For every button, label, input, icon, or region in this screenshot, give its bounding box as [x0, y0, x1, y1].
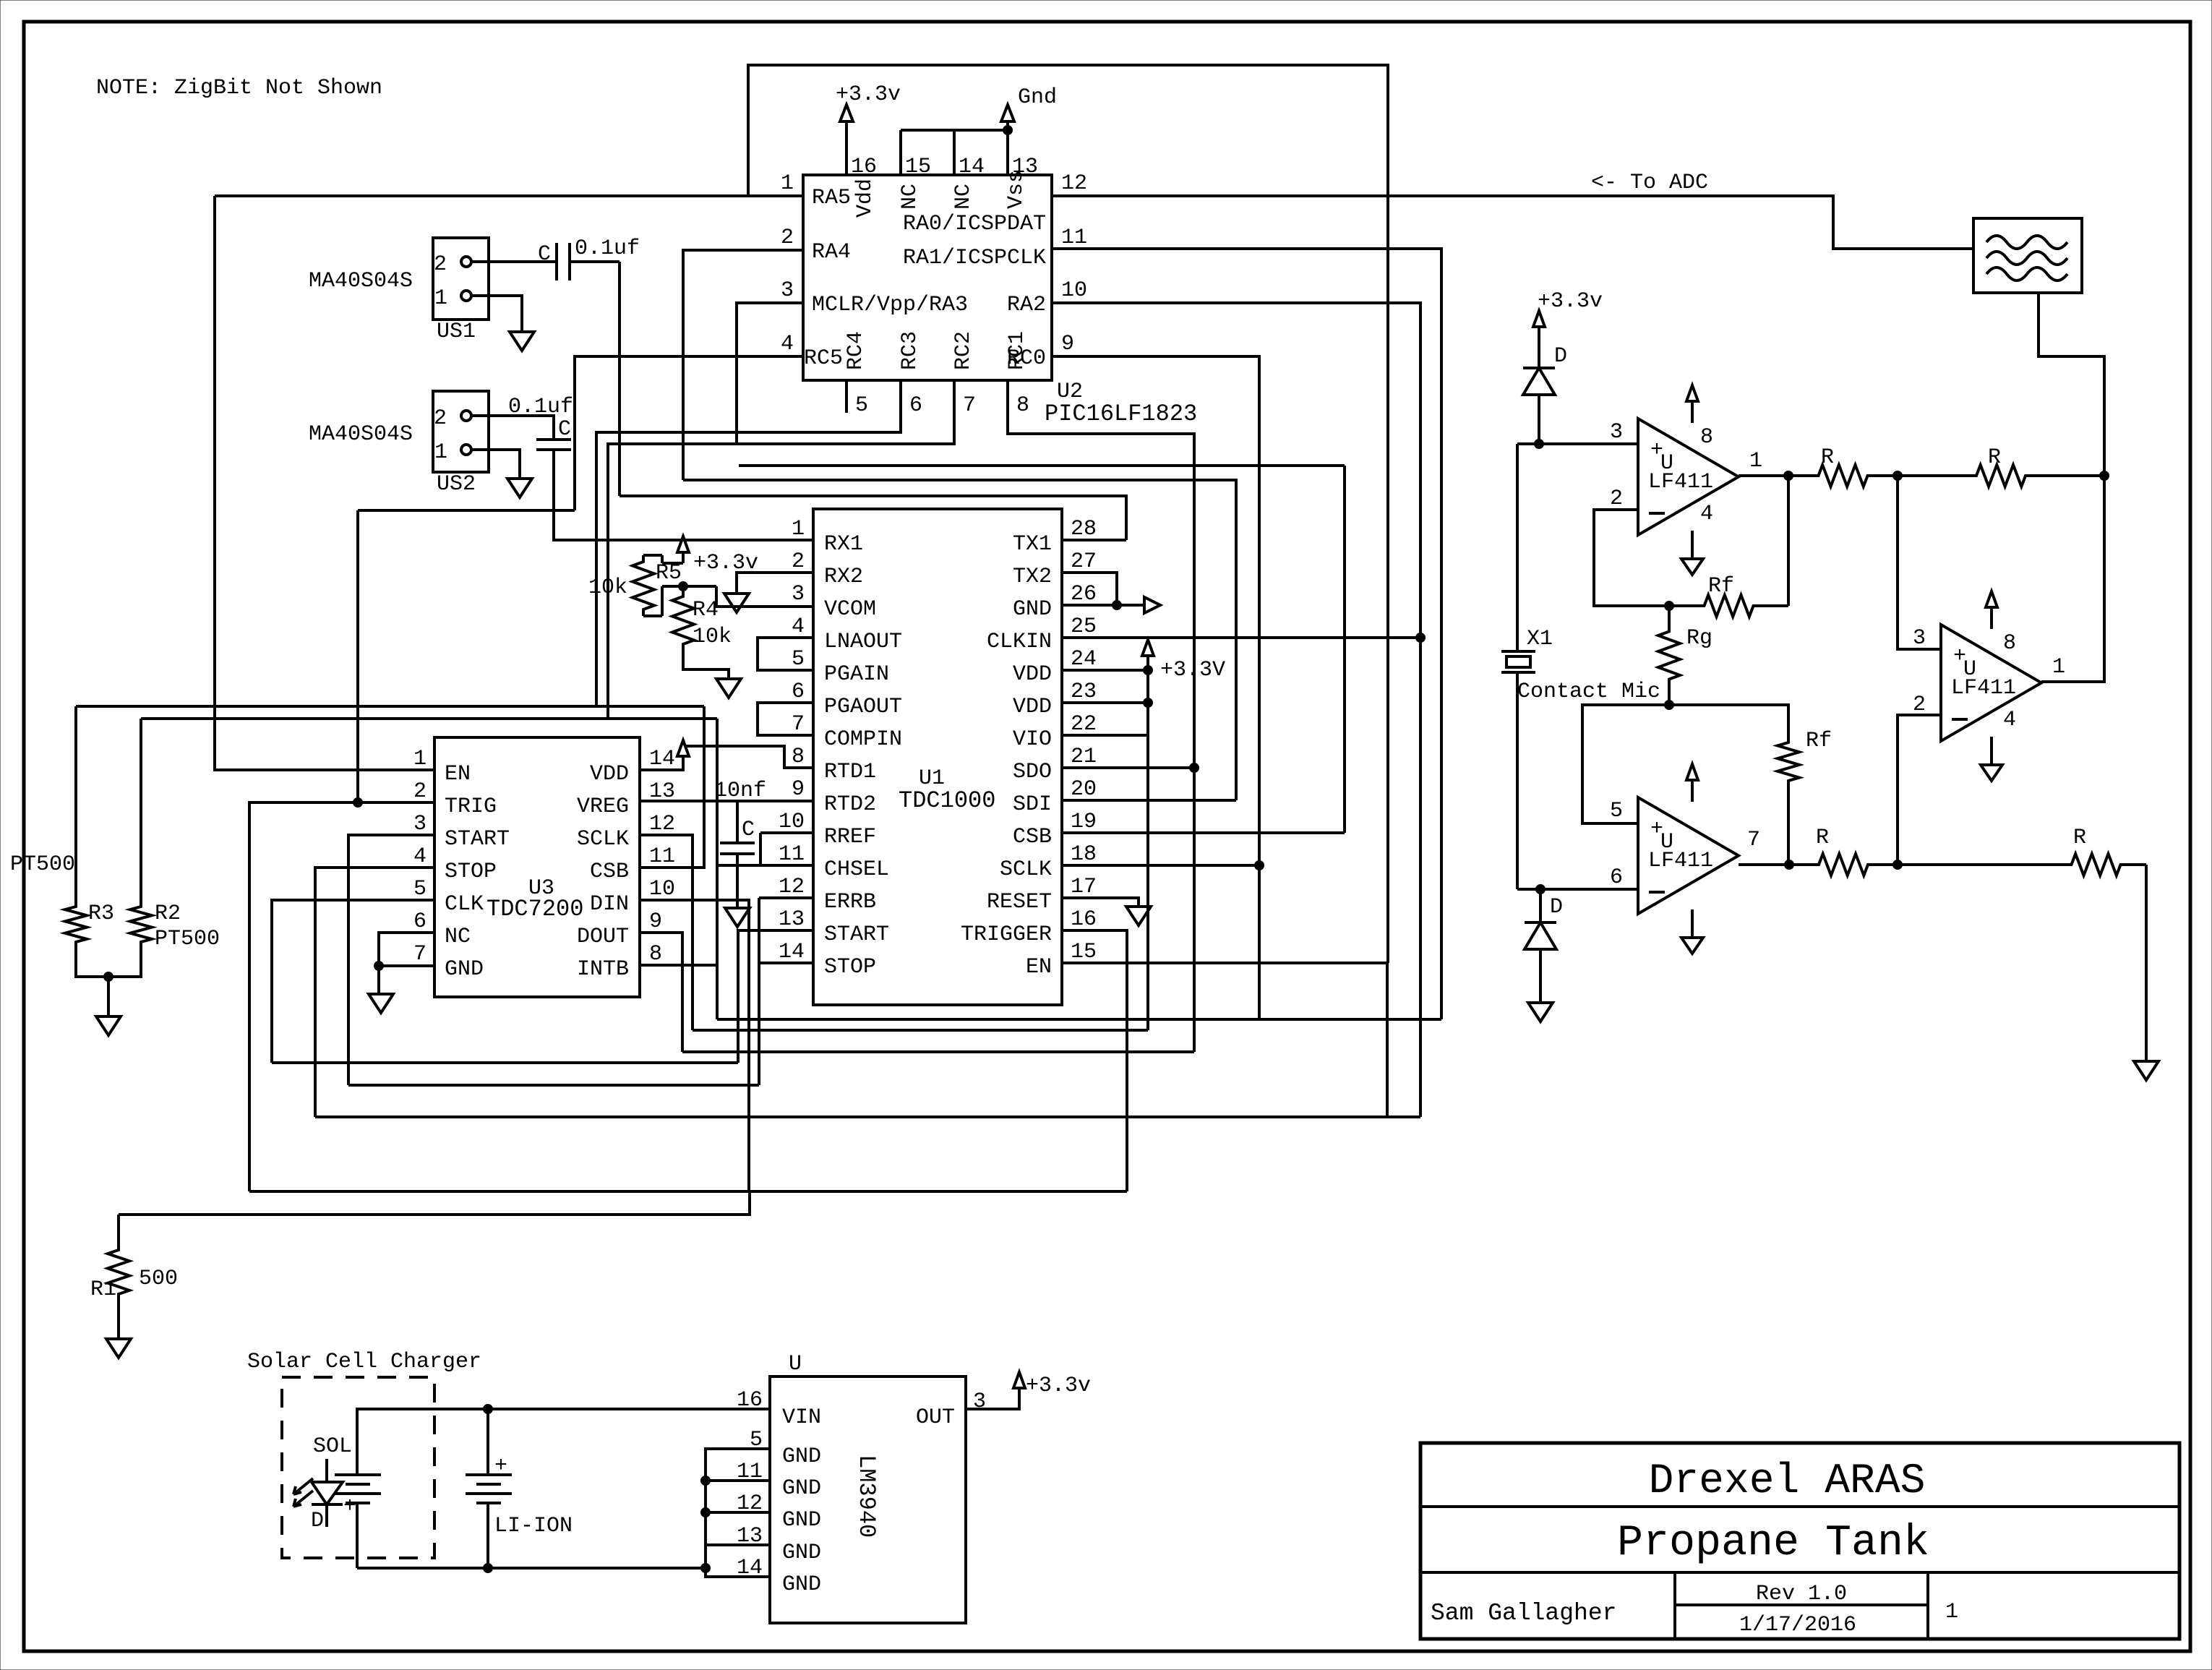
- svg-text:RC5: RC5: [804, 346, 843, 371]
- junction (bottom mid node): [1893, 860, 1903, 870]
- wire row TRIG-TRIGGER: [249, 1190, 1127, 1193]
- wire VREG to RTD2: [640, 800, 813, 802]
- junction (TRIG/R1): [353, 798, 363, 808]
- svg-text:5: 5: [855, 393, 868, 418]
- svg-text:Solar Cell Charger: Solar Cell Charger: [247, 1350, 481, 1374]
- power +3.3v (diode D top): [1533, 311, 1545, 327]
- svg-text:GND: GND: [1013, 597, 1052, 622]
- svg-text:8: 8: [649, 942, 662, 967]
- resistor R2 PT500: [130, 903, 152, 946]
- svg-text:17: 17: [1071, 875, 1097, 899]
- svg-text:2: 2: [1610, 487, 1623, 511]
- wire RA1/ICSPCLK: [1052, 249, 1441, 1019]
- svg-text:Rf: Rf: [1708, 574, 1734, 599]
- junction (lm gnd): [701, 1564, 711, 1573]
- wire row DOUT-SDO: [682, 1050, 1194, 1053]
- wire RTD1 jog: [685, 746, 813, 768]
- svg-text:RTD1: RTD1: [824, 760, 876, 784]
- wire RC5-TRIG row: [358, 509, 575, 512]
- svg-text:13: 13: [779, 907, 805, 932]
- wire LNAOUT-PGAIN loop: [758, 638, 813, 670]
- svg-text:Sam Gallagher: Sam Gallagher: [1431, 1600, 1616, 1627]
- svg-text:LF411: LF411: [1648, 849, 1713, 873]
- svg-text:SDI: SDI: [1013, 792, 1052, 817]
- op-amp U LF411 (right): [1941, 625, 2041, 741]
- svg-text:10k: 10k: [693, 625, 732, 649]
- wire RA4-SDI row: [683, 480, 1236, 800]
- wire op1 out: [1739, 474, 1788, 477]
- wire CSB U1: [1062, 831, 1345, 834]
- svg-text:RC2: RC2: [951, 331, 976, 370]
- svg-text:TDC1000: TDC1000: [899, 787, 995, 814]
- capacitor C 0.1uf (US2): [536, 438, 571, 441]
- svg-text:X1: X1: [1527, 627, 1553, 651]
- wire U1 START riser: [738, 930, 813, 1063]
- svg-text:28: 28: [1071, 517, 1097, 541]
- svg-text:OUT: OUT: [916, 1405, 955, 1430]
- resistor R5 10k: [633, 555, 654, 616]
- svg-text:R: R: [1816, 826, 1829, 850]
- junction (VDD23): [1144, 698, 1153, 708]
- svg-text:12: 12: [779, 875, 805, 899]
- svg-text:22: 22: [1071, 712, 1097, 737]
- svg-text:R4: R4: [693, 598, 719, 622]
- wire MCLR (pin3): [737, 303, 803, 444]
- wire U3 START riser: [348, 835, 434, 1085]
- svg-text:COMPIN: COMPIN: [824, 727, 902, 752]
- junction (op1 out): [1784, 471, 1793, 481]
- resistor R1 500: [117, 1215, 120, 1246]
- svg-text:1: 1: [434, 286, 447, 311]
- ground (op2 pin4): [1990, 737, 1993, 765]
- wire R3 row: [76, 705, 704, 708]
- svg-text:STOP: STOP: [824, 955, 876, 980]
- squiggle box (transducer): [1973, 218, 2082, 293]
- svg-text:13: 13: [1012, 155, 1038, 179]
- wire U3 DIN riser: [640, 900, 749, 1191]
- svg-text:16: 16: [1071, 907, 1097, 932]
- svg-text:ERRB: ERRB: [824, 890, 876, 915]
- svg-text:3: 3: [792, 582, 805, 607]
- svg-text:16: 16: [737, 1388, 763, 1413]
- ground (RX2): [724, 594, 749, 612]
- wire U3 NC jog: [379, 933, 434, 966]
- svg-text:4: 4: [2003, 708, 2016, 732]
- wire RC1 (pin8): [1008, 380, 1194, 1052]
- wire op3 out: [1739, 863, 1789, 866]
- svg-text:+3.3v: +3.3v: [1026, 1374, 1091, 1398]
- svg-text:RA2: RA2: [1007, 293, 1046, 317]
- svg-text:3: 3: [973, 1389, 986, 1414]
- svg-text:DIN: DIN: [590, 892, 629, 917]
- svg-text:7: 7: [413, 942, 426, 967]
- svg-text:R3: R3: [88, 902, 114, 926]
- ground (op3 pin4): [1691, 909, 1694, 938]
- svg-text:1: 1: [792, 517, 805, 541]
- svg-text:10: 10: [779, 810, 805, 834]
- junction (liion-): [484, 1564, 493, 1573]
- junction (gnd12): [701, 1508, 711, 1517]
- connector US1 MA40S04S: [433, 238, 489, 320]
- svg-text:10nf: 10nf: [714, 779, 766, 803]
- ic U3 TDC7200: [434, 737, 640, 997]
- wire US2 pin2: [471, 416, 554, 440]
- wire RX2 to ground: [737, 573, 813, 594]
- svg-text:U: U: [789, 1352, 802, 1376]
- wire R to ground: [2145, 865, 2148, 1061]
- wire U3 DOUT riser: [640, 933, 682, 1052]
- connector US2 MA40S04S: [433, 391, 489, 472]
- op-amp U LF411 (top): [1638, 419, 1739, 535]
- svg-text:RC1: RC1: [1005, 331, 1029, 370]
- svg-text:1: 1: [2052, 655, 2065, 680]
- wire EN riser: [1062, 962, 1388, 964]
- battery LI-ION: [486, 1409, 489, 1475]
- svg-text:2: 2: [792, 549, 805, 574]
- svg-text:RX1: RX1: [824, 532, 863, 557]
- svg-text:Propane Tank: Propane Tank: [1617, 1519, 1929, 1568]
- junction (R2R3 gnd): [104, 972, 113, 982]
- junction (mid R node): [1893, 471, 1903, 481]
- wire row STOP3-CLKIN: [315, 1116, 1420, 1118]
- wire row CLK3: [272, 1061, 738, 1064]
- svg-text:6: 6: [909, 393, 922, 418]
- svg-text:1: 1: [1749, 449, 1762, 474]
- capacitor C 10nf: [720, 842, 755, 844]
- svg-text:PGAOUT: PGAOUT: [824, 695, 902, 719]
- svg-text:Drexel ARAS: Drexel ARAS: [1649, 1458, 1926, 1505]
- svg-text:PGAIN: PGAIN: [824, 662, 889, 687]
- svg-text:GND: GND: [782, 1476, 821, 1501]
- wire PGAOUT-COMPIN loop: [758, 703, 813, 735]
- svg-text:2: 2: [434, 406, 447, 431]
- svg-text:5: 5: [1610, 799, 1623, 823]
- svg-text:GND: GND: [445, 957, 484, 982]
- wire row 644: [739, 464, 1345, 467]
- ground (bottom R): [2134, 1061, 2159, 1080]
- svg-text:3: 3: [1913, 626, 1926, 651]
- svg-text:US2: US2: [437, 472, 476, 497]
- power (op3 pin8): [1691, 781, 1694, 802]
- wire U3 CSB riser: [640, 706, 704, 868]
- svg-text:LM3940: LM3940: [853, 1455, 880, 1538]
- svg-text:VIO: VIO: [1013, 727, 1052, 752]
- junction (diode D bottom): [1536, 885, 1546, 894]
- junction (right R node): [2100, 471, 2109, 481]
- svg-text:8: 8: [792, 745, 805, 769]
- svg-text:2: 2: [781, 226, 794, 250]
- wire C to ground: [736, 854, 739, 908]
- svg-text:4: 4: [1700, 502, 1713, 526]
- wire R4 to ground: [683, 654, 729, 679]
- wire TX2 to GND port: [1062, 573, 1117, 605]
- svg-text:21: 21: [1071, 745, 1097, 769]
- svg-text:11: 11: [1061, 226, 1087, 250]
- svg-text:VDD: VDD: [1013, 695, 1052, 719]
- svg-text:24: 24: [1071, 647, 1097, 672]
- svg-text:VDD: VDD: [590, 762, 629, 787]
- ground (RESET): [1126, 907, 1151, 925]
- svg-text:TDC7200: TDC7200: [486, 896, 583, 922]
- svg-text:18: 18: [1071, 842, 1097, 867]
- capacitor C 0.1uf (US1): [555, 243, 558, 281]
- svg-text:5: 5: [792, 647, 805, 672]
- svg-text:4: 4: [781, 332, 794, 356]
- wire R2 riser: [140, 719, 142, 903]
- svg-text:2: 2: [1913, 693, 1926, 717]
- svg-text:START: START: [445, 827, 510, 852]
- power +3.3v (U2 pin16): [845, 121, 848, 175]
- svg-text:GND: GND: [782, 1508, 821, 1533]
- svg-text:25: 25: [1071, 615, 1097, 639]
- wire ERRB: [759, 896, 813, 899]
- svg-text:4: 4: [413, 844, 426, 869]
- svg-text:+3.3V: +3.3V: [1160, 658, 1225, 682]
- svg-text:CSB: CSB: [590, 860, 629, 884]
- svg-text:RX2: RX2: [824, 565, 863, 589]
- power +3.3V (U1 VDD): [1062, 669, 1148, 672]
- svg-text:3: 3: [781, 278, 794, 303]
- ic U LM3940: [770, 1376, 966, 1623]
- svg-text:RA0/ICSPDAT: RA0/ICSPDAT: [903, 212, 1046, 236]
- wire U1 STOP riser: [759, 962, 813, 964]
- svg-text:DOUT: DOUT: [577, 925, 629, 949]
- svg-text:Rf: Rf: [1806, 729, 1832, 753]
- junction (GND U3): [374, 962, 384, 971]
- wire U3 GND: [379, 964, 434, 967]
- svg-text:LNAOUT: LNAOUT: [824, 630, 902, 654]
- svg-text:8: 8: [2003, 631, 2016, 656]
- svg-text:LF411: LF411: [1951, 676, 2016, 701]
- wire GND out: [1062, 604, 1144, 607]
- resistor Rf (second): [1778, 739, 1799, 784]
- svg-text:GND: GND: [782, 1572, 821, 1597]
- svg-text:CLK: CLK: [445, 892, 484, 917]
- svg-text:1: 1: [1945, 1600, 1958, 1624]
- wire box to R node: [2039, 293, 2104, 476]
- wire VIN net top: [357, 1409, 770, 1475]
- svg-text:MCLR/Vpp/RA3: MCLR/Vpp/RA3: [812, 293, 968, 317]
- dashed box: [282, 1377, 434, 1558]
- wire top loop RA5 to ADC/EN: [748, 65, 1388, 963]
- wire C to RX1: [554, 450, 813, 540]
- power +3.3v (LM3940): [1013, 1372, 1025, 1388]
- resistor R3 PT500: [65, 903, 87, 946]
- svg-text:TRIG: TRIG: [445, 795, 497, 819]
- wire gnd net bottom: [357, 1567, 706, 1570]
- battery SOL (solar cell): [335, 1473, 381, 1476]
- wire CHSEL riser: [717, 864, 813, 867]
- svg-text:15: 15: [1071, 940, 1097, 964]
- junction (op1 pin3 node): [1535, 440, 1544, 449]
- ground (R4): [716, 679, 741, 698]
- diode D (bottom): [1539, 889, 1542, 922]
- svg-text:LI-ION: LI-ION: [494, 1514, 573, 1538]
- svg-text:SDO: SDO: [1013, 760, 1052, 784]
- resistor R4 10k: [672, 586, 694, 654]
- ground (bottom D): [1528, 1003, 1553, 1022]
- junction (Gnd net): [1003, 126, 1013, 135]
- svg-text:6: 6: [413, 909, 426, 934]
- ic U2 PIC16LF1823: [803, 175, 1052, 380]
- svg-text:GND: GND: [782, 1541, 821, 1565]
- svg-text:16: 16: [851, 155, 877, 179]
- svg-text:TRIGGER: TRIGGER: [961, 922, 1052, 947]
- diode D (top): [1523, 367, 1555, 369]
- wire US1 pin1 to ground: [471, 296, 522, 332]
- svg-text:27: 27: [1071, 549, 1097, 574]
- power (op1 pin8): [1691, 402, 1694, 423]
- svg-text:NC: NC: [951, 184, 976, 210]
- svg-text:R5: R5: [656, 561, 682, 586]
- wire node to op1 pin3: [1539, 442, 1638, 445]
- svg-text:PIC16LF1823: PIC16LF1823: [1045, 401, 1197, 427]
- junction (GND/TX2): [1113, 601, 1122, 610]
- svg-text:MA40S04S: MA40S04S: [309, 422, 413, 447]
- wire U3 CLK riser: [272, 900, 434, 1063]
- wire CSB riser U1: [1343, 466, 1346, 833]
- svg-text:Gnd: Gnd: [1018, 85, 1057, 110]
- svg-text:2: 2: [413, 779, 426, 804]
- resistor Rg: [1658, 606, 1680, 705]
- svg-text:RC4: RC4: [844, 331, 868, 370]
- svg-text:MA40S04S: MA40S04S: [309, 269, 413, 294]
- svg-text:C: C: [558, 417, 571, 442]
- ground (R1): [106, 1339, 131, 1358]
- svg-text:5: 5: [413, 877, 426, 902]
- svg-text:1/17/2016: 1/17/2016: [1739, 1613, 1856, 1637]
- svg-text:9: 9: [1061, 332, 1074, 356]
- wire gnd bus: [706, 1449, 770, 1568]
- svg-text:C: C: [742, 818, 755, 842]
- svg-text:14: 14: [959, 155, 985, 179]
- svg-text:Contact Mic: Contact Mic: [1517, 680, 1660, 704]
- svg-text:8: 8: [1016, 393, 1029, 418]
- wire RC3 (pin6): [596, 380, 901, 706]
- svg-text:CLKIN: CLKIN: [987, 630, 1052, 654]
- wire RC2 (pin7): [608, 380, 954, 719]
- ground (10nf C): [725, 908, 750, 927]
- svg-text:SOL: SOL: [313, 1434, 352, 1459]
- wire op2 pin2 riser: [1898, 715, 1941, 865]
- svg-text:INTB: INTB: [577, 957, 629, 982]
- svg-text:RESET: RESET: [987, 890, 1052, 915]
- wire SDI: [1062, 799, 1236, 802]
- svg-text:R2: R2: [155, 902, 181, 926]
- wire op1 pin2 feedback: [1594, 510, 1669, 606]
- svg-text:+3.3v: +3.3v: [836, 82, 901, 107]
- op-amp U LF411 (bottom): [1638, 797, 1739, 914]
- svg-text:1: 1: [413, 747, 426, 771]
- wire US1 pin2 to C: [471, 260, 557, 263]
- svg-text:1: 1: [781, 171, 794, 196]
- power +3.3 (U3 VDD): [640, 756, 683, 770]
- svg-text:6: 6: [792, 680, 805, 704]
- wire US2 pin1 to ground: [471, 450, 520, 479]
- svg-text:26: 26: [1071, 582, 1097, 607]
- wire row START3: [348, 1084, 759, 1087]
- svg-text:7: 7: [963, 393, 976, 418]
- wire op2 pin3: [1898, 476, 1941, 649]
- wire mic node to op3 pin5: [1582, 705, 1669, 823]
- resistor R (op3 out): [1789, 854, 1898, 875]
- svg-text:D: D: [1554, 344, 1567, 369]
- wire RA4 (pin2): [683, 250, 803, 480]
- wire X1 bottom to op3 pin6: [1517, 888, 1638, 891]
- svg-text:Rev 1.0: Rev 1.0: [1756, 1582, 1847, 1606]
- svg-text:9: 9: [792, 777, 805, 802]
- svg-text:START: START: [824, 922, 889, 947]
- svg-text:RA1/ICSPCLK: RA1/ICSPCLK: [903, 246, 1046, 270]
- wire node to VCOM: [716, 586, 813, 607]
- resistor R (bottom right): [1898, 863, 2046, 866]
- resistor R (first): [1788, 465, 1898, 487]
- svg-text:R: R: [2073, 826, 2086, 850]
- wire RC5 (pin4): [575, 356, 803, 510]
- junction (gnd11): [701, 1476, 711, 1486]
- wire CLKIN: [1062, 636, 1420, 639]
- svg-text:R1: R1: [90, 1277, 116, 1302]
- ground (US2): [507, 479, 532, 497]
- ic U1 TDC1000: [813, 509, 1062, 1005]
- ground (R2R3): [96, 1016, 121, 1035]
- svg-text:+3.3v: +3.3v: [1538, 289, 1603, 314]
- wire TX1: [1062, 539, 1126, 541]
- svg-text:SCLK: SCLK: [577, 827, 629, 852]
- wire SDO: [1062, 766, 1194, 769]
- svg-text:<- To ADC: <- To ADC: [1591, 171, 1708, 195]
- svg-text:CHSEL: CHSEL: [824, 857, 889, 882]
- svg-text:14: 14: [649, 747, 675, 771]
- svg-text:VIN: VIN: [782, 1405, 821, 1430]
- wire op2 out: [2041, 476, 2104, 682]
- wire RA5 net (pin1): [215, 194, 803, 197]
- svg-text:RA4: RA4: [812, 240, 851, 265]
- wire TRIG up riser: [356, 510, 359, 802]
- ground (US1): [510, 332, 534, 351]
- wire TRIGGER riser: [1062, 930, 1127, 1191]
- svg-text:7: 7: [1747, 828, 1760, 852]
- svg-text:11: 11: [649, 844, 675, 869]
- svg-text:LF411: LF411: [1648, 470, 1713, 494]
- wire R2 row: [141, 717, 717, 720]
- junction (mic node): [1665, 701, 1674, 710]
- svg-text:RC3: RC3: [898, 331, 922, 370]
- wire U3 SCLK riser: [640, 835, 693, 1030]
- svg-text:R: R: [1988, 445, 2001, 470]
- power +3.3v (R5): [677, 536, 689, 552]
- svg-text:CSB: CSB: [1013, 825, 1052, 849]
- svg-text:RREF: RREF: [824, 825, 876, 849]
- wire U3 INTB riser: [640, 964, 717, 967]
- svg-text:14: 14: [779, 940, 805, 964]
- svg-text:6: 6: [1610, 865, 1623, 890]
- power (op2 pin8): [1990, 608, 1993, 629]
- wire RESET to ground: [1062, 898, 1139, 907]
- svg-text:NC: NC: [445, 925, 471, 949]
- svg-text:11: 11: [779, 842, 805, 867]
- svg-text:Rg: Rg: [1686, 626, 1712, 651]
- svg-text:NOTE: ZigBit Not Shown: NOTE: ZigBit Not Shown: [96, 76, 382, 100]
- svg-text:23: 23: [1071, 680, 1097, 704]
- title block: [1420, 1443, 2179, 1639]
- junction (SCLK U1): [1255, 861, 1264, 870]
- svg-text:500: 500: [139, 1267, 178, 1291]
- svg-text:8: 8: [1700, 425, 1713, 450]
- wire row R1 jog: [119, 1191, 750, 1215]
- svg-text:15: 15: [905, 155, 931, 179]
- junction (R5/R4 node): [679, 582, 688, 591]
